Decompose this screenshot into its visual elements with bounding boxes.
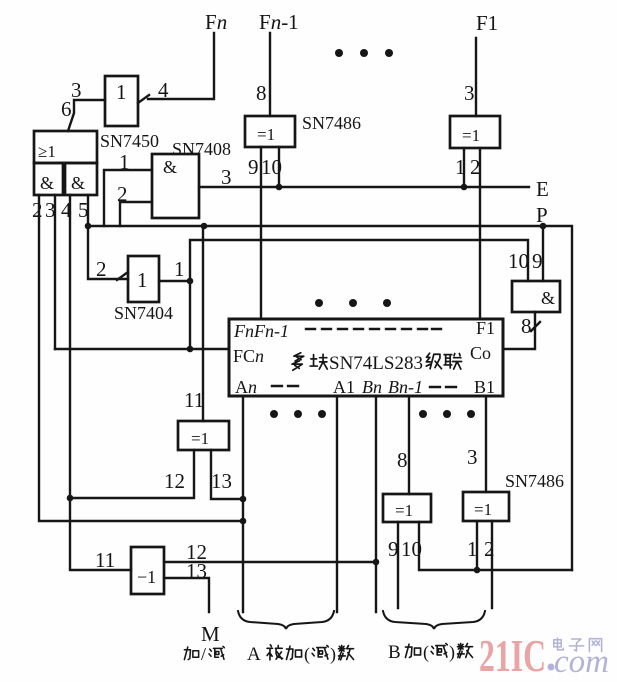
wire U11 pin10 to net P bottom [419,522,572,570]
label paren close B [449,642,455,663]
wire U9 output pin8 to adder Co [503,312,535,349]
label SN7404 [114,303,173,323]
watermark dot [548,664,555,671]
wire U7 pin13 to net An [211,450,243,499]
wire U2 pin5 down to node P and U6 input [88,195,128,279]
junction pin4 line at U7 pin12 [67,495,74,502]
wire F1 to U4 pin3 [475,38,477,116]
label paren open B [423,642,429,663]
pin label 12 of U8 [186,540,207,564]
watermark 21IC [479,630,546,681]
svg-text:13: 13 [211,469,232,493]
svg-text:2: 2 [96,257,107,281]
wire U11 pin9 input column [397,522,399,608]
label SN7486 bottom [505,471,564,491]
pin label 1 of U6 [174,257,185,281]
inverter U1 output tick [138,95,149,103]
svg-text:4: 4 [158,78,169,102]
ellipsis dots top [335,49,393,57]
svg-text:=1: =1 [191,429,209,448]
label paren close A [330,644,336,665]
svg-text:SN7404: SN7404 [114,303,173,323]
adder pin label Co [470,343,491,363]
pin label 2 of U4 [470,155,481,179]
label hanzi shu B [457,643,472,657]
wire NOT-P net from U6 output to U9 pin10 [190,240,528,349]
label slash M [201,644,206,664]
pin label 10 of U11 [401,537,422,561]
label hanzi jian B [431,643,447,657]
svg-text:Co: Co [470,343,491,363]
svg-text:3: 3 [221,165,232,189]
junction E at U4 pin1 [461,184,468,191]
label hanzi jia M [184,647,198,660]
svg-text:&: & [40,173,54,193]
label hanzi bei [267,645,282,660]
pin label 9 of U11 [388,537,399,561]
adder title hanzi ji [426,353,441,369]
pin label 3 of U5 [221,165,232,189]
svg-text:B: B [388,642,401,663]
svg-text:SN74LS283: SN74LS283 [329,353,423,374]
svg-text:11: 11 [184,388,204,412]
wire U4 pin1 to net E [463,148,465,187]
adder title hanzi kuai [310,354,327,369]
wire net P [88,226,572,570]
and-gate U9 output tick [531,322,540,331]
svg-text:SN7486: SN7486 [302,113,361,133]
pin label 4 of U2 [61,198,72,222]
wire U7 pin12 to U2 pin4 line [69,450,194,498]
wire net Bn input column [375,397,377,612]
adder bottom dashes left [272,385,298,387]
svg-text:(: ( [423,642,429,663]
svg-text:&: & [541,288,555,308]
ellipsis dots B group [419,410,475,418]
svg-text:A: A [247,644,261,665]
svg-text:B1: B1 [474,377,495,397]
wire U5 pin2 from node P [120,202,152,226]
svg-text:8: 8 [256,81,267,105]
svg-text:F1: F1 [476,318,495,338]
svg-text:≥1: ≥1 [38,142,56,161]
label B operand [388,642,401,663]
ellipsis dots A group [270,410,326,418]
label SN7408 [172,139,231,159]
svg-text:/: / [201,644,206,664]
svg-text:9: 9 [248,155,259,179]
pin label 8 of U3 [256,81,267,105]
node Fn terminal [205,10,227,34]
wire U1 input pin3 [68,100,105,131]
ellipsis dots above adder [315,299,391,307]
svg-text:A1: A1 [333,377,355,397]
pin label 6 of SN7450 [61,97,72,121]
op-amp U2 SN7450 AND-OR gate [34,131,97,195]
adder pin label B1 [474,377,495,397]
node Fn-1 terminal [259,10,299,34]
pin label 1 of U12 [467,537,478,561]
adder pin label An [235,377,257,397]
svg-text:11: 11 [95,548,115,572]
pin label 2 of U12 [484,537,495,561]
pin label 2 of U2 [32,198,43,222]
xor U7 SN7486 gate for An [178,421,229,450]
pin label 11 of U7 [184,388,204,412]
node E label [536,177,549,201]
junction U6 output node [187,278,194,285]
junction FCn at U6 output riser [187,346,194,353]
svg-text:Bn: Bn [362,377,382,397]
wire U9 pin9 from net P [542,226,544,281]
junction P at U9 pin9 [540,223,547,230]
pin label 2 of U6 [96,257,107,281]
wire U6 output pin1 [159,280,190,282]
adder title hanzi lian [444,354,461,370]
svg-text:FnFn-1: FnFn-1 [233,321,289,341]
junction Bn at U8 pin12 [373,559,380,566]
junction An at U7 pin13 [240,496,247,503]
wire U2 pin2 down to An net [39,195,243,521]
adder pin label F1 [476,318,495,338]
label hanzi shu A [338,645,353,659]
svg-text:Fn-1: Fn-1 [259,10,299,34]
pin label 3 of U4 [464,81,475,105]
junction P bottom at U12 pin1 [474,567,481,574]
adder pin label A1 [333,377,355,397]
adder pin label FnFn-1 [233,321,289,341]
svg-text:3: 3 [467,445,478,469]
svg-text:8: 8 [397,448,408,472]
wire U3 pin9 to adder Fn-1 [260,147,262,319]
adder top dashes [306,328,441,330]
svg-text:SN7486: SN7486 [505,471,564,491]
pin label 9 of U3 [248,155,259,179]
svg-text:1: 1 [137,268,148,292]
brace A group [238,611,334,629]
adder pin label Bn-1 [388,377,423,397]
and-gate U9 carry gate [512,281,560,312]
watermark hanzi wang [589,639,601,652]
svg-text:=1: =1 [474,500,492,519]
svg-text:6: 6 [61,97,72,121]
adder title SN74LS283 [329,353,423,374]
xor U4 SN7486 gate B [450,116,500,148]
svg-text:9: 9 [532,249,543,273]
svg-text:10: 10 [508,249,529,273]
adder title hanzi duo [292,353,304,370]
pin label 1 of U5 [119,150,130,174]
svg-text:SN7450: SN7450 [100,131,159,151]
adder bottom dashes right [430,386,456,388]
svg-text:21IC: 21IC [479,630,546,681]
pin label 5 of U2 [78,198,89,222]
pin label 1 of U4 [455,155,466,179]
xor U3 SN7486 gate A [245,116,295,147]
label SN7450 [100,131,159,151]
wire U4 pin2 to adder F1 [479,148,481,319]
wire U2 pin4 down to gate U8 input [70,195,131,570]
svg-text:com: com [554,644,609,680]
svg-text:2: 2 [32,198,43,222]
svg-text:=1: =1 [462,126,480,145]
svg-text:FCn: FCn [233,346,264,366]
label hanzi jia A [286,646,301,659]
svg-text:F1: F1 [476,11,498,35]
wire U3 pin10 to net E [278,147,280,187]
wire U12 pin2 input column [491,521,493,608]
adder block U10 cascaded SN74LS283 [229,319,503,396]
svg-text:1: 1 [174,257,185,281]
inverter U6 input tick [117,272,128,280]
wire U5 pin1 from node P [104,170,152,226]
wire net E [199,186,529,188]
inverter U6 SN7404 [128,256,159,302]
svg-text:An: An [235,377,257,397]
wire Fn-1 to U3 pin8 [269,33,271,116]
wire U8 pin12 to net Bn [164,561,376,563]
svg-text:=1: =1 [257,125,275,144]
label & of U2 left AND [40,173,54,193]
svg-text:Fn: Fn [205,10,227,34]
label hanzi jia B [405,644,420,657]
pin label 9 of U9 [532,249,543,273]
pin label 8 of U11 [397,448,408,472]
inverter U1 (top, part of SN7450) [105,76,138,126]
svg-text:=1: =1 [395,501,413,520]
adder pin label FCn [233,346,264,366]
xor U12 SN7486 gate for B1 [463,492,509,521]
pin label 13 of U8 [186,559,207,583]
label & of U2 right AND [71,173,85,193]
wire U12 pin1 to net P bottom [476,521,478,570]
svg-text:3: 3 [464,81,475,105]
wire adder Bn-1 to U11 pin8 [408,397,410,494]
watermark hanzi dian [554,638,564,650]
junction P at U7 pin11 riser [201,223,208,230]
label ≥1 of U2 [38,142,56,161]
svg-text:): ) [449,642,455,663]
svg-text:Bn-1: Bn-1 [388,377,423,397]
pin label 10 of U3 [261,155,282,179]
wire net FCn [55,348,229,350]
svg-text:M: M [201,622,220,646]
node M terminal [201,622,220,646]
watermark hanzi zi [569,639,583,651]
label hanzi jian M [209,646,224,659]
pin label 10 of U9 [508,249,529,273]
svg-text:E: E [536,177,549,201]
wire Fn to inverter pin4 [148,33,214,99]
pin label 3 of U1 [71,78,82,102]
pin label 4 of U1 [158,78,169,102]
label A operand [247,644,261,665]
svg-text:SN7408: SN7408 [172,139,231,159]
watermark com [554,644,609,680]
xor U8 SN7486 gate for M [131,547,164,594]
adder pin label Bn [362,377,382,397]
svg-text:(: ( [304,644,310,665]
xor U11 SN7486 gate for Bn-1 [383,494,431,522]
node F1 terminal [476,11,498,35]
pin label 8 of U9 [521,314,532,338]
label SN7486 top [302,113,361,133]
wire U7 pin11 to net P [202,226,204,421]
brace B group [383,611,485,629]
pin label 12 of U7 [164,469,185,493]
label paren jian A [304,644,310,665]
and-gate U5 SN7408 [152,154,199,218]
pin label 3 of U12 [467,445,478,469]
wire U2 pin3 down to FCn net [54,195,56,349]
wire adder B1 to U12 pin3 [485,397,487,492]
svg-text:1: 1 [116,80,127,104]
pin label 2 of U5 [117,182,128,206]
junction E at U3 pin10 [276,184,283,191]
wire U8 pin13 to M terminal [164,578,209,612]
svg-text:−1: −1 [137,567,156,587]
pin label 11 of U8 [95,548,115,572]
wire net An input column [242,397,244,612]
node P label [536,203,548,227]
junction An at U2 pin2 line [240,518,247,525]
svg-text:&: & [71,173,85,193]
label hanzi jian A [312,645,328,659]
wire net A1 input column [336,397,338,612]
svg-text:&: & [163,157,177,177]
svg-text:): ) [330,644,336,665]
pin label 13 of U7 [211,469,232,493]
pin label 3 of U2 [45,198,56,222]
svg-text:8: 8 [521,314,532,338]
junction P at pin5 [85,223,92,230]
svg-text:12: 12 [164,469,185,493]
svg-text:3: 3 [71,78,82,102]
